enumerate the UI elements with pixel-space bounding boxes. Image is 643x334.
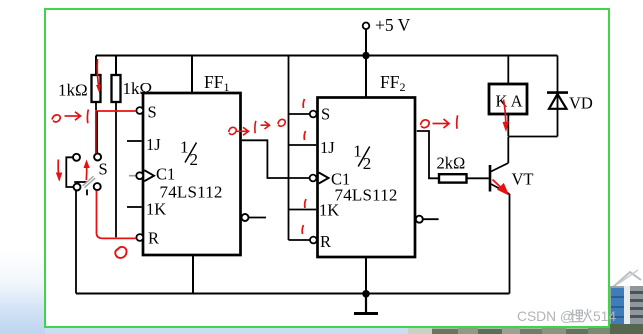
svg-text:2: 2	[363, 154, 372, 173]
relay coil KA	[489, 84, 527, 114]
resistor R1 1k	[92, 75, 101, 102]
resistor R3 2k	[439, 174, 467, 182]
wire FF2 bottom to rail	[365, 257, 367, 294]
pin FF1 R bubble	[136, 234, 143, 241]
resistor R2 1k	[112, 75, 121, 102]
terminal +5V	[363, 23, 370, 30]
transistor Q1 VT	[490, 163, 510, 194]
svg-text:VT: VT	[512, 170, 534, 189]
pin FF1 C1 clock	[129, 175, 136, 177]
red wire through R1 with arrow	[96, 59, 101, 94]
pin FF1 S bubble	[136, 107, 143, 114]
wire switch common to ground rail	[75, 191, 77, 294]
svg-text:CSDN @: CSDN @	[517, 309, 574, 324]
wire diode top lead	[557, 56, 559, 93]
red wire R1 to S input	[96, 110, 137, 112]
wire FF1 bottom to rail	[192, 254, 194, 294]
svg-text:74LS112: 74LS112	[160, 182, 223, 201]
red marks 1 at FF2 inputs	[302, 99, 306, 234]
wire bottom ground rail	[76, 293, 510, 295]
svg-text:514: 514	[593, 309, 616, 324]
svg-text:1K: 1K	[146, 200, 166, 219]
svg-text:1: 1	[180, 138, 189, 157]
node +5V junction	[362, 52, 369, 59]
wire +5V drop	[365, 29, 367, 55]
svg-text:C1: C1	[156, 165, 175, 184]
pin FF1 Qbar bubble and stub	[242, 214, 249, 221]
svg-text:1J: 1J	[320, 138, 335, 157]
red annotation 0->1 at FF2 Q	[421, 115, 458, 129]
blue band below border	[45, 328, 410, 334]
wire top +5V rail	[96, 55, 558, 57]
pin FF2 S stub and bubble	[289, 113, 310, 115]
svg-text:2: 2	[190, 150, 199, 169]
wire FF2 input bus from rail	[288, 56, 290, 241]
pin FF1 1J stub	[127, 140, 142, 142]
switch S	[66, 154, 101, 196]
red arrow emitter	[493, 180, 508, 194]
svg-text:S: S	[99, 160, 108, 179]
pin FF2 Qbar bubble and stub	[416, 216, 423, 223]
svg-text:74LS112: 74LS112	[335, 185, 398, 204]
wire diode bottom lead	[557, 109, 559, 137]
blue gradient bottom-left	[0, 248, 45, 334]
svg-text:VD: VD	[569, 94, 593, 113]
svg-text:R: R	[320, 232, 331, 251]
ground	[365, 294, 367, 314]
red annotation 0->1->0 at FF1 Q	[229, 119, 286, 135]
wire collector up	[507, 137, 509, 163]
wire KA to diode bottom	[508, 136, 557, 138]
pin FF2 1K stub	[289, 209, 317, 211]
svg-text:2kΩ: 2kΩ	[437, 154, 466, 173]
photo strip bottom	[408, 327, 610, 334]
svg-text:+5 V: +5 V	[375, 15, 411, 35]
wire R2 bottom lead to R input	[115, 102, 117, 237]
pin FF2 1J stub	[289, 144, 317, 146]
node ground junction	[362, 290, 370, 298]
wire FF2 top supply	[365, 56, 367, 98]
wire KA bottom	[507, 114, 509, 137]
pin FF2 R stub and bubble	[289, 239, 311, 241]
red label 0 at R	[115, 247, 126, 258]
red arrow up middle of switch	[84, 160, 90, 181]
wire FF2 Q to base resistor	[417, 131, 439, 178]
red wire switch bottom contact to R input	[97, 191, 137, 239]
red arrow down left of switch	[56, 160, 63, 182]
red annotation 0->1 at FF1 S	[52, 110, 88, 124]
watermark CSDN	[517, 309, 616, 324]
wire KA top supply	[507, 56, 509, 85]
svg-text:S: S	[321, 105, 330, 124]
wire FF1 top supply	[191, 56, 193, 94]
svg-text:S: S	[148, 103, 157, 122]
wire base lead	[467, 177, 489, 179]
wire R1 to switch top contact (black under red)	[96, 111, 98, 154]
svg-text:1J: 1J	[146, 135, 161, 154]
svg-text:1kΩ: 1kΩ	[58, 81, 88, 100]
pin FF1 1K stub	[127, 206, 142, 208]
svg-text:1: 1	[353, 142, 362, 161]
svg-text:K A: K A	[496, 92, 523, 111]
wire emitter down to rail	[509, 194, 511, 294]
wire R2 top lead	[115, 56, 117, 76]
wire R1 top lead	[95, 56, 97, 76]
red wire down to switch top contact	[95, 111, 97, 153]
diode VD	[547, 93, 568, 109]
wire FF1 Q to FF2 C1	[242, 140, 310, 178]
wire R1 bottom lead	[95, 102, 97, 111]
svg-text:R: R	[148, 229, 159, 248]
op-amp U2 FF2 74LS112 box	[318, 98, 416, 258]
label FF1 1/2	[180, 138, 198, 169]
label FF2 1/2	[353, 142, 371, 173]
op-amp U1 FF1 74LS112 box	[143, 93, 241, 255]
building photo bottom-right	[610, 262, 643, 334]
pin FF2 C1 clock	[310, 175, 317, 182]
red arrow KA down	[503, 100, 510, 133]
